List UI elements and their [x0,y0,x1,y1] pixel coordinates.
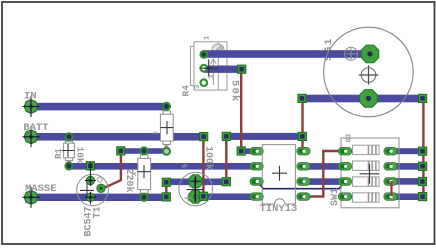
pad BATT [23,126,40,147]
switch SW1 pad 6 [384,178,397,186]
wire: row4 SW right to via [391,193,423,200]
drill cross R4 wiper [204,67,210,69]
svg-text:3: 3 [209,75,217,79]
capacitor C1 outline [179,172,213,206]
svg-text:R1: R1 [54,148,64,159]
resistor R2 pad 2 [163,148,170,155]
resistor R1 pad 2 [66,163,73,170]
svg-text:50k: 50k [228,80,240,103]
svg-text:100k: 100k [203,146,215,170]
resistor R1 body [64,140,75,163]
trimmer R4 wiper arrow [211,59,217,85]
via mid row left [222,132,230,140]
red trace: via to T1 collector [103,151,121,188]
switch SW1 pad 1 [338,147,351,155]
speaker SG1 pad - [360,90,378,108]
wire: long row2 y=166 R1 to TINY13 [69,163,256,170]
resistor R2 body [160,110,173,148]
capacitor C1 stripe mark [189,184,203,187]
origin cross R2 [161,121,174,134]
wire: short row y=151 via-220k-R2 [121,148,167,154]
wire: mid row y=136.4 via to via [226,133,302,140]
svg-text:2: 2 [343,192,351,196]
transistor T1 pad C [97,184,106,193]
origin cross U1 [272,166,287,181]
via pin5 stub [237,147,245,155]
switch SW1 pad 8 [384,147,397,155]
via SW row4 right [419,193,427,201]
IC U1 pad 8 [250,193,263,201]
IC TINY13 outline (over pads) [262,145,295,204]
capacitor C1 pad - [189,175,202,188]
svg-text:T1: T1 [93,206,104,218]
wire: row3 SW right to via [391,178,423,185]
switch SW1 pad 5 [384,193,397,201]
wire: R4 wiper to via, y=69 [204,66,242,73]
wire: row3 TINY13 to SW [303,178,346,185]
SW1 buttons [353,145,380,202]
red trace: right edge speaker to row4 via [422,99,424,197]
resistor R1 pad 1 [66,133,73,140]
transistor T1 outline [77,174,109,206]
speaker SG1 pad + [361,45,379,63]
red trace: jumper via-via at x=166.3 [165,182,167,196]
svg-text:TINY13: TINY13 [260,203,298,215]
via wiper net [238,65,246,73]
svg-text:1: 1 [204,36,212,40]
pad MASSE [23,187,40,208]
T1 pin marker circle [97,177,102,182]
via row4 [199,192,207,200]
resistor R3 pad 2 [141,194,148,201]
switch SW1 pad 3 [338,178,351,186]
via T1 base net [86,162,94,170]
IC U1 pad 3 [297,163,310,171]
wire: row3 segment via-cap-via y=181.8 [166,179,226,186]
via SW row3 right [418,177,426,185]
trimmer R4 screw [212,44,224,56]
via mid row right [298,132,306,140]
svg-text:IN: IN [24,91,37,103]
svg-text:G3: G3 [346,134,354,142]
via SW row2 right [419,162,427,170]
switch SW1 pad 2 [338,163,351,171]
transistor T1 pad E [86,193,95,202]
red trace: BATT via down to row4 via [202,137,204,197]
switch SW1 pad 4 [338,193,351,201]
trimmer R4 pad 1 [201,51,208,58]
DIP switch SW1 outline [341,138,399,208]
red trace: speaker via down to TINY13 pin8 [301,99,303,152]
wire: MASSE row y=197.3 [31,194,166,201]
svg-text:SW1: SW1 [330,188,341,206]
via jumper bottom [162,193,170,201]
switch SW1 pad 7 [384,163,397,171]
IC U1 pad 5 [250,147,263,155]
origin cross R3 [138,165,151,178]
via BATT end [200,133,208,141]
svg-text:MASSE: MASSE [25,183,57,195]
via row3 right [222,178,230,186]
origin cross C1 [187,177,205,202]
thin wire: TINY13 pin3 meander [257,182,345,189]
drill cross C1 pads [190,176,201,202]
trimmer R4 pad 2 wiper [201,65,208,72]
svg-text:5: 5 [182,164,190,168]
IC U1 pad 2 [297,178,310,186]
capacitor C1 pad + [189,190,202,203]
svg-text:BATT: BATT [23,122,48,134]
via speaker net left [298,94,306,102]
speaker origin circle [359,65,379,85]
wire: row1 SW right to via [391,148,423,154]
via speaker net right [419,94,427,102]
origin cross SW1 [360,164,380,184]
via jumper top [162,178,170,186]
drill cross T1 pad E [85,192,96,205]
via SW row1 right [419,147,427,155]
capacitor plus mark [185,195,192,202]
IC U1 pad 4 [297,147,310,155]
speaker plus mark [345,47,358,60]
red jumper SW right pads 3-4 [390,181,392,196]
wire: IN row, y=106.5 [31,103,167,111]
trimmer R4 body [191,42,228,90]
wire: R4 pin1 to speaker top pad, y=54 [204,50,370,58]
trimmer R4 pad 3 [201,79,208,86]
IC U1 pad 1 [297,193,310,201]
resistor R2 pad 1 [163,103,170,110]
red trace: SW pin1 to TINY13 pin1 [306,151,342,197]
IC U1 pad 7 [250,178,263,186]
drill cross T1 pad B [85,162,96,186]
origin cross R1 [62,144,75,157]
red trace: mid via down to row3 via [225,137,227,182]
origin cross T1 [80,183,94,197]
wire: BATT row, y=136.8 [31,133,204,141]
svg-text:3: 3 [194,85,202,89]
svg-text:R4: R4 [181,85,192,97]
pad IN [23,96,40,117]
resistor R3 220k body [138,154,151,194]
transistor T1 pad B [86,176,95,185]
svg-text:10k: 10k [74,147,85,164]
wire: row2 right TINY13 to SW [303,163,346,170]
wire: row2 SW right to via [391,163,423,170]
origin cross R4 [200,60,218,78]
resistor R3 pad 1 [141,147,148,154]
IC U1 pad 6 [250,163,263,171]
wire: row4 cap to TINY13 y=196.6 [196,193,257,200]
via R2 net [117,147,125,155]
red trace: R4 wiper via down to pin5 stub via [240,69,242,151]
wire: speaker bottom row, y=98.4 [302,95,423,103]
wire: stub via to TINY13 pin row1 left [241,148,255,154]
speaker LSG1 outline [324,27,414,117]
